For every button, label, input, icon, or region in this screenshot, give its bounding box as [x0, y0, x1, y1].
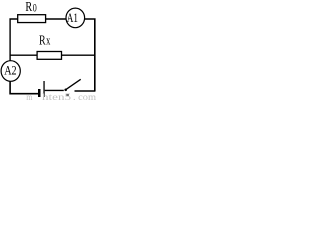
resistor R0 — [18, 15, 46, 23]
svg-text:x: x — [46, 33, 51, 47]
wire R0 to A1 — [46, 18, 66, 20]
switch S pivot dot — [64, 89, 67, 92]
svg-text:R: R — [39, 33, 46, 48]
wire A2 bottom to bottom-left corner to battery — [10, 81, 38, 94]
switch S lever — [66, 79, 80, 89]
resistor Rx — [37, 52, 61, 60]
svg-text:A1: A1 — [67, 11, 78, 25]
ammeter A1 — [66, 8, 85, 28]
watermark dark speck — [66, 94, 69, 96]
ammeter A2 — [1, 61, 20, 82]
svg-text:R: R — [25, 0, 32, 15]
svg-text:0: 0 — [33, 3, 37, 15]
wire battery to switch — [45, 89, 64, 91]
wire Rx row left — [10, 54, 37, 56]
svg-text:. com: . com — [73, 92, 96, 101]
battery negative plate (short thick) — [38, 89, 41, 97]
battery positive plate (long thin) — [43, 81, 44, 97]
wire Rx row right — [62, 54, 95, 56]
svg-text:A2: A2 — [4, 63, 16, 77]
svg-text:m: m — [26, 92, 32, 101]
svg-text:hten5: hten5 — [42, 92, 72, 101]
watermark — [26, 92, 96, 102]
wire top-left corner and left vertical — [10, 19, 18, 61]
wire switch right stub — [75, 90, 96, 92]
wire A1 to top-right corner and right vertical — [85, 19, 95, 91]
